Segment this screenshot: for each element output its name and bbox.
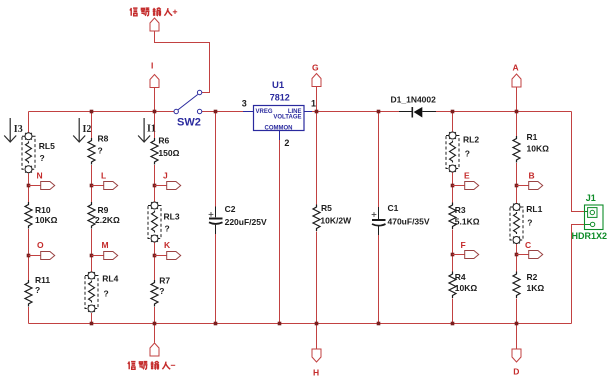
svg-text:HDR1X2: HDR1X2 [572, 231, 608, 241]
wire bottom bus [29, 323, 572, 325]
svg-text:RL2: RL2 [463, 134, 479, 144]
svg-text:O: O [37, 240, 44, 250]
wire top bus switch to U1 pin3 [202, 111, 243, 113]
node B junction [515, 184, 519, 188]
resistor R1 [513, 136, 520, 163]
current arrow I2 [73, 118, 85, 142]
svg-text:RL5: RL5 [39, 141, 55, 151]
resistor R10 [25, 202, 32, 229]
label 信號輸入+ (signal input plus) [130, 8, 177, 16]
svg-text:L: L [101, 171, 106, 181]
node C junction [515, 253, 519, 257]
wire C1 column [378, 112, 380, 324]
port tag E [453, 182, 479, 190]
resistor R8 [88, 138, 95, 165]
port tag C [517, 251, 543, 259]
node K junction [153, 254, 157, 258]
svg-text:R3: R3 [455, 205, 466, 215]
svg-text:RL3: RL3 [164, 212, 180, 222]
port tag O [29, 252, 55, 260]
node L junction [90, 184, 94, 188]
svg-text:?: ? [40, 153, 45, 163]
svg-text:2: 2 [284, 138, 289, 148]
switch SW2 [174, 90, 202, 113]
svg-text:1: 1 [311, 99, 316, 109]
svg-text:VOLTAGE: VOLTAGE [273, 115, 301, 121]
resistor R4 [449, 272, 456, 299]
svg-text:RL1: RL1 [526, 204, 542, 214]
photoresistor RL4 [85, 272, 98, 312]
svg-text:D: D [513, 367, 519, 377]
svg-text:C1: C1 [388, 203, 399, 213]
svg-text:2.2KΩ: 2.2KΩ [95, 215, 120, 225]
port A [512, 74, 521, 87]
svg-text:R7: R7 [159, 276, 170, 286]
svg-text:150Ω: 150Ω [158, 148, 179, 158]
svg-text:220uF/25V: 220uF/25V [225, 217, 267, 227]
port tag M [92, 252, 118, 260]
port tag N [29, 182, 55, 190]
resistor R2 [513, 272, 520, 299]
photoresistor RL3 [148, 202, 161, 242]
svg-text:R5: R5 [321, 203, 332, 213]
svg-text:C: C [525, 240, 531, 250]
svg-text:R2: R2 [527, 272, 538, 282]
resistor R7 [151, 280, 158, 307]
resistor R6 [151, 138, 158, 165]
port H [312, 349, 321, 362]
svg-text:?: ? [165, 224, 170, 234]
svg-text:C2: C2 [225, 204, 236, 214]
resistor R11 [25, 280, 32, 307]
port tag F [453, 251, 479, 259]
photoresistor RL2 [446, 132, 459, 172]
wire right edge down to J1 pin1 [572, 112, 585, 212]
node E junction [451, 184, 455, 188]
wire C2 column [215, 112, 217, 324]
svg-text:E: E [464, 171, 470, 181]
svg-text:1KΩ: 1KΩ [527, 283, 545, 293]
svg-text:?: ? [104, 289, 109, 299]
svg-text:VREG: VREG [256, 109, 273, 115]
svg-text:R9: R9 [98, 205, 109, 215]
svg-text:R4: R4 [455, 272, 466, 282]
svg-text:3: 3 [242, 99, 247, 109]
wire J1 pin2 to right edge down [572, 225, 585, 324]
wire input+ port to switch [155, 31, 210, 93]
svg-text:G: G [312, 63, 319, 73]
junction dots top bus [90, 110, 94, 114]
node O junction [27, 254, 31, 258]
svg-text:COMMON: COMMON [265, 125, 293, 131]
svg-text:U1: U1 [272, 80, 285, 91]
capacitor C1 [372, 207, 386, 235]
svg-text:N: N [37, 171, 43, 181]
svg-text:SW2: SW2 [177, 117, 201, 129]
port tag B [517, 182, 543, 190]
svg-text:10K/2W: 10K/2W [320, 216, 352, 226]
svg-text:?: ? [98, 146, 103, 156]
port tag L [92, 182, 118, 190]
port tag K [155, 252, 181, 260]
photoresistor RL1 [510, 204, 523, 244]
svg-text:F: F [461, 240, 466, 250]
current arrow I1 [138, 118, 150, 142]
svg-text:R11: R11 [35, 275, 50, 285]
svg-text:J1: J1 [586, 193, 596, 203]
svg-text:B: B [529, 171, 535, 181]
node J junction [153, 184, 157, 188]
svg-text:?: ? [35, 285, 40, 295]
wire top bus left [29, 111, 175, 113]
port D [512, 349, 521, 362]
node M junction [90, 254, 94, 258]
svg-text:A: A [513, 62, 519, 72]
wire U1 pin2 column [279, 140, 281, 324]
svg-text:RL4: RL4 [102, 274, 118, 284]
svg-text:5.1KΩ: 5.1KΩ [455, 217, 480, 227]
svg-text:R1: R1 [527, 132, 538, 142]
current arrow I3 [4, 118, 16, 142]
port G [312, 74, 321, 87]
svg-text:H: H [313, 368, 319, 378]
svg-text:M: M [102, 240, 109, 250]
svg-text:R10: R10 [35, 205, 51, 215]
svg-text:D1_1N4002: D1_1N4002 [391, 95, 437, 105]
port I [150, 75, 159, 88]
svg-text:10KΩ: 10KΩ [527, 144, 550, 154]
resistor R5 [313, 205, 320, 232]
connector J1 HDR1X2 [585, 205, 604, 230]
svg-text:10KΩ: 10KΩ [35, 215, 58, 225]
svg-text:R8: R8 [98, 134, 109, 144]
label 信號輸入- (signal input minus) [128, 361, 175, 369]
svg-text:I3: I3 [14, 124, 23, 135]
resistor R3 [449, 203, 456, 230]
wire column1 RL5/R10/R11 [28, 112, 30, 324]
wire column3 I/R6/RL3/R7 [154, 88, 156, 343]
wire A/R1/RL1/R2/D column [516, 87, 518, 349]
port 信號輸入+ (pentagon) [150, 18, 159, 31]
svg-text:470uF/35V: 470uF/35V [388, 216, 430, 226]
op-amp U1 7812 regulator [242, 80, 316, 148]
wire G/R5/H column [316, 87, 318, 350]
svg-text:?: ? [527, 218, 532, 228]
svg-text:I1: I1 [147, 124, 156, 135]
wire top bus U1 pin1 to right corner [312, 111, 572, 113]
resistor R9 [88, 202, 95, 229]
node N junction [27, 184, 31, 188]
diode D1 1N4002 [391, 95, 437, 118]
svg-text:?: ? [159, 286, 164, 296]
svg-text:K: K [164, 240, 171, 250]
node F junction [451, 253, 455, 257]
svg-text:?: ? [465, 148, 470, 158]
svg-text:I2: I2 [83, 124, 92, 135]
svg-text:10KΩ: 10KΩ [455, 283, 478, 293]
svg-text:R6: R6 [158, 135, 169, 145]
port 信號輸入- (pentagon) [150, 343, 159, 356]
wire RL2/R3/R4 column [452, 112, 454, 324]
port tag J [155, 182, 181, 190]
svg-text:7812: 7812 [270, 93, 290, 103]
capacitor C2 [209, 207, 223, 235]
wire column2 R8/R9/RL4 [91, 112, 93, 324]
junction dots bottom bus [90, 322, 94, 326]
svg-text:I: I [151, 61, 153, 71]
photoresistor RL5 [22, 133, 35, 173]
svg-text:J: J [163, 171, 168, 181]
